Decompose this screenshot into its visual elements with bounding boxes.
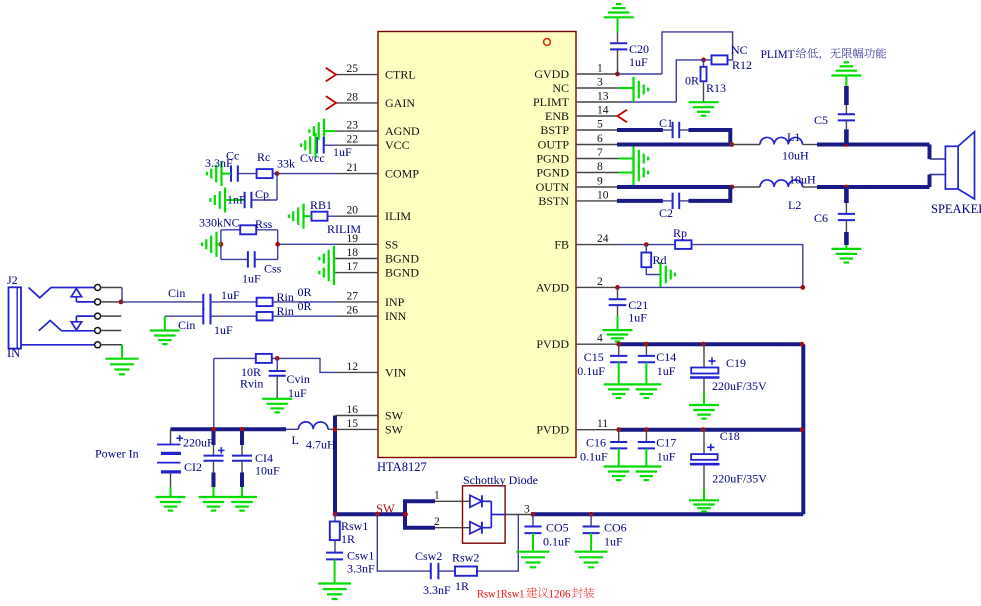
svg-text:BGND: BGND — [385, 266, 419, 280]
svg-text:SS: SS — [385, 237, 398, 251]
svg-text:1uF: 1uF — [242, 272, 261, 286]
svg-text:NC: NC — [731, 43, 748, 57]
svg-text:C18: C18 — [720, 429, 740, 443]
svg-text:0R: 0R — [685, 74, 699, 88]
svg-text:J2: J2 — [7, 273, 18, 287]
svg-text:22: 22 — [347, 134, 359, 146]
svg-text:VIN: VIN — [385, 365, 407, 379]
svg-text:8: 8 — [597, 161, 603, 173]
svg-text:9: 9 — [597, 176, 603, 188]
svg-text:0.1uF: 0.1uF — [577, 364, 605, 378]
svg-text:18: 18 — [347, 247, 359, 259]
svg-text:RB1: RB1 — [310, 198, 332, 212]
svg-text:3.3nF: 3.3nF — [205, 156, 233, 170]
svg-text:Cp: Cp — [255, 187, 269, 201]
svg-text:CO5: CO5 — [546, 521, 569, 535]
svg-text:Csw1: Csw1 — [347, 549, 374, 563]
svg-text:C6: C6 — [814, 211, 828, 225]
svg-text:Css: Css — [264, 262, 282, 276]
svg-text:INN: INN — [385, 309, 407, 323]
svg-text:PVDD: PVDD — [536, 337, 569, 351]
svg-text:2: 2 — [597, 276, 603, 288]
svg-text:16: 16 — [347, 404, 359, 416]
svg-text:1uF: 1uF — [333, 145, 352, 159]
svg-text:FB: FB — [554, 238, 569, 252]
svg-text:4.7uH: 4.7uH — [306, 438, 336, 452]
svg-text:13: 13 — [597, 91, 609, 103]
svg-text:26: 26 — [347, 305, 359, 317]
svg-text:BSTP: BSTP — [540, 123, 569, 137]
svg-text:Rvin: Rvin — [240, 377, 263, 391]
svg-text:AVDD: AVDD — [536, 280, 569, 294]
svg-text:15: 15 — [347, 418, 359, 430]
svg-text:CTRL: CTRL — [385, 68, 416, 82]
svg-text:L2: L2 — [788, 198, 801, 212]
svg-text:1uF: 1uF — [657, 450, 676, 464]
svg-text:1: 1 — [597, 63, 603, 75]
svg-text:Schottky Diode: Schottky Diode — [463, 473, 538, 487]
svg-text:C1: C1 — [659, 116, 673, 130]
svg-text:1uF: 1uF — [288, 386, 307, 400]
svg-text:21: 21 — [347, 162, 359, 174]
svg-text:HTA8127: HTA8127 — [377, 460, 427, 474]
svg-text:3.3nF: 3.3nF — [423, 583, 451, 597]
svg-text:23: 23 — [347, 120, 359, 132]
svg-text:1uF: 1uF — [628, 311, 647, 325]
svg-text:33k: 33k — [277, 157, 295, 171]
svg-text:L1: L1 — [787, 130, 800, 144]
svg-text:0.1uF: 0.1uF — [580, 450, 608, 464]
svg-text:C15: C15 — [584, 350, 604, 364]
svg-text:Cin: Cin — [168, 286, 185, 300]
svg-text:Rc: Rc — [257, 150, 270, 164]
svg-text:Cvin: Cvin — [287, 372, 310, 386]
svg-text:ILIM: ILIM — [385, 209, 411, 223]
svg-text:R12: R12 — [732, 58, 752, 72]
svg-text:PLIMT: PLIMT — [761, 47, 796, 61]
svg-text:C17: C17 — [656, 436, 676, 450]
svg-text:OUTN: OUTN — [536, 180, 570, 194]
svg-text:1R: 1R — [341, 532, 355, 546]
svg-text:C20: C20 — [629, 42, 649, 56]
svg-text:11: 11 — [597, 418, 608, 430]
svg-text:1: 1 — [434, 490, 440, 502]
svg-text:7: 7 — [597, 147, 603, 159]
svg-text:IN: IN — [7, 346, 20, 360]
svg-text:3.3nF: 3.3nF — [347, 562, 375, 576]
svg-text:4: 4 — [597, 333, 603, 345]
svg-text:25: 25 — [347, 63, 359, 75]
svg-text:Power In: Power In — [95, 447, 139, 461]
svg-text:20: 20 — [347, 205, 359, 217]
svg-text:GVDD: GVDD — [534, 67, 569, 81]
svg-text:220uF: 220uF — [183, 436, 214, 450]
svg-text:1206: 1206 — [549, 587, 571, 601]
svg-text:CO6: CO6 — [604, 521, 627, 535]
svg-text:L: L — [292, 433, 299, 447]
svg-text:Cvcc: Cvcc — [300, 151, 325, 165]
svg-text:14: 14 — [597, 105, 609, 117]
svg-text:10uH: 10uH — [789, 173, 816, 187]
svg-text:BSTN: BSTN — [538, 194, 569, 208]
svg-text:6: 6 — [597, 133, 603, 145]
svg-text:PVDD: PVDD — [536, 423, 569, 437]
svg-text:ENB: ENB — [545, 109, 569, 123]
svg-text:220uF/35V: 220uF/35V — [712, 379, 767, 393]
svg-text:10uH: 10uH — [782, 149, 809, 163]
svg-text:0R: 0R — [298, 285, 312, 299]
svg-text:C19: C19 — [726, 356, 746, 370]
svg-text:10uF: 10uF — [255, 464, 280, 478]
svg-text:COMP: COMP — [385, 167, 419, 181]
svg-text:Rsw2: Rsw2 — [452, 551, 479, 565]
svg-text:2: 2 — [434, 516, 440, 528]
svg-text:C5: C5 — [814, 113, 828, 127]
svg-text:Rin: Rin — [277, 304, 294, 318]
svg-text:1uF: 1uF — [657, 364, 676, 378]
svg-text:C14: C14 — [656, 350, 676, 364]
svg-text:330kNC: 330kNC — [199, 216, 240, 230]
svg-text:Rss: Rss — [255, 217, 273, 231]
svg-text:Rd: Rd — [653, 253, 667, 267]
svg-text:VCC: VCC — [385, 138, 410, 152]
svg-text:Rin: Rin — [277, 290, 294, 304]
svg-text:1uF: 1uF — [214, 323, 233, 337]
svg-text:24: 24 — [597, 233, 609, 245]
svg-text:PGND: PGND — [536, 166, 569, 180]
svg-text:Csw2: Csw2 — [415, 549, 442, 563]
svg-text:1uF: 1uF — [629, 55, 648, 69]
svg-text:BGND: BGND — [385, 252, 419, 266]
svg-text:12: 12 — [347, 361, 359, 373]
svg-text:INP: INP — [385, 295, 405, 309]
svg-text:RILIM: RILIM — [327, 222, 361, 236]
svg-text:R13: R13 — [706, 81, 726, 95]
svg-text:27: 27 — [347, 290, 359, 302]
svg-text:Rp: Rp — [673, 226, 687, 240]
svg-text:CI2: CI2 — [184, 460, 202, 474]
svg-text:AGND: AGND — [385, 124, 420, 138]
svg-text:GAIN: GAIN — [385, 96, 415, 110]
svg-text:C2: C2 — [659, 206, 673, 220]
svg-text:Cin: Cin — [178, 318, 195, 332]
svg-text:1nF: 1nF — [227, 193, 246, 207]
svg-text:28: 28 — [347, 91, 359, 103]
svg-text:1uF: 1uF — [221, 288, 240, 302]
svg-text:NC: NC — [552, 81, 569, 95]
svg-text:Rsw1: Rsw1 — [341, 519, 368, 533]
svg-text:1R: 1R — [455, 579, 469, 593]
svg-text:0.1uF: 0.1uF — [543, 535, 571, 549]
svg-text:1uF: 1uF — [604, 535, 623, 549]
svg-text:SW: SW — [385, 409, 404, 423]
svg-text:Rsw1Rsw1: Rsw1Rsw1 — [477, 587, 525, 601]
svg-text:3: 3 — [524, 504, 530, 516]
svg-text:220uF/35V: 220uF/35V — [712, 472, 767, 486]
svg-text:SW: SW — [385, 422, 404, 436]
svg-text:3: 3 — [597, 77, 603, 89]
svg-text:SPEAKER: SPEAKER — [931, 202, 981, 216]
svg-text:10: 10 — [597, 189, 609, 201]
svg-text:17: 17 — [347, 261, 359, 273]
svg-text:C16: C16 — [586, 436, 606, 450]
svg-text:PGND: PGND — [536, 152, 569, 166]
svg-text:OUTP: OUTP — [538, 138, 570, 152]
svg-text:0R: 0R — [298, 299, 312, 313]
svg-text:PLIMT: PLIMT — [533, 95, 570, 109]
svg-text:5: 5 — [597, 119, 603, 131]
